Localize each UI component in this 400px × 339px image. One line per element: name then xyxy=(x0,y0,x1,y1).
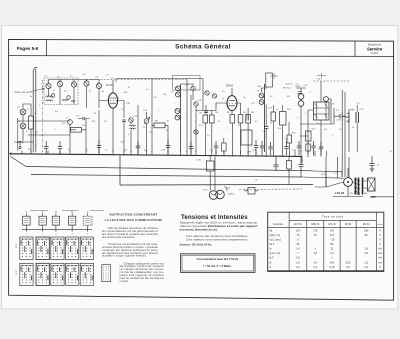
wafer contacts A3 xyxy=(51,237,64,260)
svg-text:1,2: 1,2 xyxy=(330,252,334,255)
svg-text:4: 4 xyxy=(72,234,73,236)
svg-text:Ia T: Ia T xyxy=(269,257,274,260)
svg-text:Vg2 (+ G): Vg2 (+ G) xyxy=(269,234,280,237)
wire: mixer links xyxy=(70,110,99,152)
cap C15 xyxy=(204,111,208,113)
trimmer C3 xyxy=(71,82,76,87)
svg-text:0,78: 0,78 xyxy=(330,266,335,269)
wafer contacts B1 xyxy=(20,263,33,285)
svg-text:EZ 80: EZ 80 xyxy=(345,224,352,226)
svg-text:5n: 5n xyxy=(352,127,354,129)
svg-text:1M: 1M xyxy=(104,121,107,123)
cap C51 xyxy=(268,142,273,155)
wire: V2 cathode drops xyxy=(232,108,248,154)
svg-text:0,3: 0,3 xyxy=(296,266,300,269)
svg-text:1n: 1n xyxy=(207,135,209,137)
switch wafer S2 xyxy=(39,216,46,225)
cap C28 xyxy=(214,141,219,155)
svg-text:ECH 81: ECH 81 xyxy=(294,224,303,226)
speaker SP xyxy=(368,178,376,191)
volume pot R12 xyxy=(271,112,276,121)
wafer contacts B5 xyxy=(80,263,93,285)
resistor R11 xyxy=(287,135,292,143)
svg-text:ECL 82: ECL 82 xyxy=(328,224,336,226)
resistor R5 xyxy=(210,115,215,123)
svg-text:0,3: 0,3 xyxy=(314,266,318,269)
coil box L1 (dashed) xyxy=(44,78,78,105)
wire: heater line xyxy=(31,175,302,178)
IF can T2 outline xyxy=(266,73,273,87)
cap C50 xyxy=(260,141,265,155)
switch wafer S3 xyxy=(52,216,59,225)
svg-text:Central: Central xyxy=(371,52,379,55)
svg-text:6,3V: 6,3V xyxy=(197,160,202,162)
coil L11 xyxy=(67,96,71,100)
svg-text:Ig 2 (+ G): Ig 2 (+ G) xyxy=(269,252,280,255)
cap C54 xyxy=(319,142,324,156)
resistor R8 xyxy=(246,115,251,124)
svg-text:S5: S5 xyxy=(86,211,88,213)
svg-text:1,6: 1,6 xyxy=(296,261,300,264)
svg-text:0,3: 0,3 xyxy=(364,266,368,269)
svg-text:Br: Br xyxy=(256,179,258,182)
wire: T1 links xyxy=(181,80,197,153)
svg-text:S4: S4 xyxy=(71,211,73,213)
grid resistor R13 xyxy=(348,113,350,124)
svg-text:C44 47 → 1,5: C44 47 → 1,5 xyxy=(285,84,299,86)
svg-text:Unités: Unités xyxy=(377,223,383,226)
mixer grid coil L4 xyxy=(68,120,73,125)
svg-text:0,9: 0,9 xyxy=(364,252,368,255)
svg-text:EM 84: EM 84 xyxy=(363,224,370,226)
svg-text:INSTRUCTION CONCERNANT: INSTRUCTION CONCERNANT xyxy=(109,213,157,217)
wire: left feed lines xyxy=(315,171,342,187)
trimmer C14 xyxy=(194,102,198,106)
node junctions on bus xyxy=(22,153,23,154)
cap C29 xyxy=(254,140,259,155)
svg-text:1,4: 1,4 xyxy=(296,248,300,251)
switch wafer S5 xyxy=(83,216,92,225)
svg-text:Tensions et Intensités: Tensions et Intensités xyxy=(181,214,248,221)
wafer contacts B4 xyxy=(66,263,79,285)
node: chassis arrow xyxy=(10,153,15,155)
svg-text:– 10: – 10 xyxy=(330,239,335,242)
svg-text:Appareil réglé sur 200 m. envi: Appareil réglé sur 200 m. environ, sans … xyxy=(180,221,258,225)
svg-text:LA LECTURE DES COMMUTATIONS: LA LECTURE DES COMMUTATIONS xyxy=(105,218,163,222)
wafer contacts A2 xyxy=(36,237,49,260)
wire: V2 leads xyxy=(216,88,241,114)
IF transformer T1 xyxy=(180,84,182,152)
svg-text:5k: 5k xyxy=(218,121,220,123)
cap C39 xyxy=(246,114,248,121)
tube V4 EL84 output xyxy=(344,178,353,187)
wire: B+ line xyxy=(120,184,313,187)
switch contact K1 xyxy=(17,142,23,146)
cap C24 xyxy=(97,140,102,154)
svg-text:la position « rouge » (gamme é: la position « rouge » (gamme étendue). xyxy=(102,254,147,258)
cap C30 xyxy=(297,141,302,155)
wire: gang dashed link xyxy=(42,80,44,152)
trimmer C10 xyxy=(129,118,134,123)
svg-text:1M: 1M xyxy=(285,139,288,141)
svg-text:mA: mA xyxy=(378,261,382,264)
wire: left edge drops xyxy=(14,104,33,152)
svg-text:P.O.: P.O. xyxy=(16,244,18,248)
svg-text:EB91: EB91 xyxy=(296,86,302,88)
trimmer C5 xyxy=(96,83,101,88)
svg-text:3: 3 xyxy=(55,234,56,236)
node AB terminal xyxy=(371,196,376,198)
wire: wafer bus xyxy=(22,229,92,231)
cap C48 below bus xyxy=(274,157,279,171)
wafer contacts B2 xyxy=(36,263,49,285)
instruction figure: wafer key xyxy=(102,265,111,282)
padder C8 xyxy=(20,123,26,129)
wire: dashed return xyxy=(239,188,302,191)
IF can T1 outline xyxy=(173,76,201,91)
wire: bus end drop xyxy=(301,156,303,163)
coil L10 xyxy=(51,94,55,98)
svg-text:Valeurs moyennes (hachurées et: Valeurs moyennes (hachurées et volts par… xyxy=(180,224,258,228)
wire: output stage feeds xyxy=(326,152,372,187)
svg-text:S2: S2 xyxy=(41,211,43,213)
wire: output links xyxy=(326,168,368,197)
cap C27 xyxy=(189,141,194,155)
svg-text:170: 170 xyxy=(330,234,335,237)
resistor R17 below bus xyxy=(207,161,215,171)
diode D2 xyxy=(298,101,304,107)
wire: AVC dashed left xyxy=(90,79,187,81)
label top marks xyxy=(270,73,278,79)
cap C11 xyxy=(122,120,126,122)
svg-text:L7A,L8: L7A,L8 xyxy=(335,191,344,195)
wire: dial lamp feed xyxy=(214,157,216,191)
label wafer top note xyxy=(30,210,104,212)
svg-text:0,6: 0,6 xyxy=(346,266,350,269)
svg-text:S3: S3 xyxy=(55,211,57,213)
consumption box xyxy=(181,254,256,273)
header title band xyxy=(9,55,394,58)
resistor R4 xyxy=(203,115,208,123)
cap C17 xyxy=(298,92,303,94)
svg-text:Va T: Va T xyxy=(269,243,275,246)
tube V1 ECH81 xyxy=(108,93,117,108)
resistor R18 below bus xyxy=(248,188,255,195)
svg-text:HF 10,2: HF 10,2 xyxy=(283,88,292,90)
cap C20 with ground xyxy=(370,159,375,173)
svg-text:4,2: 4,2 xyxy=(314,261,318,264)
svg-text:170: 170 xyxy=(330,229,335,232)
wire: AVC dashed right xyxy=(313,80,349,82)
trimmer C13 xyxy=(191,86,195,90)
wafer contacts A4 xyxy=(66,237,79,260)
wafer contacts A5 xyxy=(80,237,93,260)
padder C7 xyxy=(20,109,26,115)
svg-text:2k: 2k xyxy=(166,130,168,132)
detector transformer T3 xyxy=(314,102,330,120)
svg-text:2M: 2M xyxy=(238,125,241,127)
svg-text:des circuits qu'ils intéressen: des circuits qu'ils intéressent. xyxy=(102,235,135,239)
svg-text:40,2: 40,2 xyxy=(330,261,335,264)
wire: AVC bus xyxy=(26,167,313,171)
svg-text:Schéma Général: Schéma Général xyxy=(175,44,231,51)
resistor R1 xyxy=(29,116,34,129)
trimmer C1 xyxy=(46,83,51,88)
svg-text:k: k xyxy=(36,145,37,147)
resistor R10 xyxy=(280,112,287,126)
cap C49 below bus xyxy=(299,157,304,178)
trimmer C21b xyxy=(212,94,216,98)
cap C25 xyxy=(136,141,141,154)
svg-text:1: 1 xyxy=(26,234,27,236)
svg-text:C.A.V.: C.A.V. xyxy=(317,78,324,81)
svg-text:mA: mA xyxy=(378,248,382,251)
svg-text:G.O.: G.O. xyxy=(16,269,18,274)
tube V2 EBF80 xyxy=(227,96,237,111)
svg-text:10n: 10n xyxy=(339,129,342,131)
svg-text:5: 5 xyxy=(87,234,88,236)
cap C23 xyxy=(58,141,63,154)
diode D3 xyxy=(324,97,329,102)
resistor R3 xyxy=(154,123,165,128)
svg-text:47k: 47k xyxy=(324,129,327,131)
svg-text:S1: S1 xyxy=(25,211,27,213)
svg-text:Consommation avec 110 V 50 H: Consommation avec 110 V 50 Hz xyxy=(197,257,239,261)
svg-text:Service: Service xyxy=(367,46,383,51)
wire: osc section xyxy=(124,101,138,153)
antenna lead-in xyxy=(33,67,37,152)
wire: top links right xyxy=(300,124,334,136)
tube data table xyxy=(268,212,384,271)
dial lamp LP1 xyxy=(209,191,218,200)
wire: osc plate xyxy=(147,105,169,152)
svg-text:+250: +250 xyxy=(123,92,129,94)
coil L12 xyxy=(62,100,75,102)
svg-text:mA: mA xyxy=(378,252,382,255)
switch wafer S4 xyxy=(69,216,76,225)
trimmer C21 xyxy=(205,91,209,95)
svg-text:Type de tube: Type de tube xyxy=(322,215,344,219)
coupling cap C18 xyxy=(340,112,347,121)
wire: lines into output xyxy=(302,171,344,178)
tone cap C19 xyxy=(356,112,358,123)
coil L2 xyxy=(46,96,53,97)
output transformer T4 xyxy=(356,178,359,195)
svg-text:Pages 5-6: Pages 5-6 xyxy=(17,46,39,51)
trimmer C4 xyxy=(84,81,89,86)
decoupling box R9 xyxy=(241,130,252,145)
dial lamp LP2 xyxy=(216,190,225,199)
resistor R14 xyxy=(306,131,312,141)
svg-text:170: 170 xyxy=(296,229,301,232)
svg-text:à la masse), (mesurées au c/c): à la masse), (mesurées au c/c). xyxy=(180,228,218,232)
svg-text:50k: 50k xyxy=(278,128,281,130)
coil L5 xyxy=(130,125,136,126)
wire: band link rail xyxy=(18,118,70,151)
svg-text:g: g xyxy=(118,97,119,99)
resistor R16 xyxy=(306,144,311,151)
svg-text:2n: 2n xyxy=(26,131,28,133)
node grid junction xyxy=(196,110,216,112)
svg-text:Secteur: 110 Volts 50 Hz.: Secteur: 110 Volts 50 Hz. xyxy=(180,243,213,247)
svg-text:Ces valeurs sont mesurées sépa: Ces valeurs sont mesurées séparément. xyxy=(186,238,248,241)
svg-text:osc: osc xyxy=(146,89,149,91)
svg-text:1,8: 1,8 xyxy=(364,248,368,251)
svg-text:ci-jointe.: ci-jointe. xyxy=(120,279,130,283)
svg-text:Electrode: Electrode xyxy=(274,223,284,226)
svg-text:2: 2 xyxy=(42,234,43,236)
svg-text:1,5: 1,5 xyxy=(364,261,368,264)
svg-text:260: 260 xyxy=(364,229,369,232)
wire: top row link xyxy=(49,80,100,84)
wire: AF verticals xyxy=(334,90,345,152)
wafer contacts A1 xyxy=(20,237,33,260)
wire: lamp bracket xyxy=(225,187,228,192)
svg-text:0,3A: 0,3A xyxy=(363,192,368,195)
wire: V1 leads xyxy=(99,80,124,152)
diode D1 xyxy=(298,94,304,100)
wire: B+ top rail xyxy=(116,79,203,111)
svg-text:TRAFIC-BROADC.: TRAFIC-BROADC. xyxy=(14,91,33,94)
svg-text:3,8: 3,8 xyxy=(314,252,318,255)
svg-text:EBF80: EBF80 xyxy=(226,86,234,88)
cap C9 xyxy=(78,117,90,120)
resistor R2 xyxy=(71,128,82,133)
cap C16 xyxy=(264,127,269,129)
cap C52 xyxy=(284,141,289,155)
svg-text:Vg 1 (osc): Vg 1 (osc) xyxy=(269,239,281,242)
wire: riser to B+ xyxy=(119,156,121,185)
svg-text:0,2: 0,2 xyxy=(296,257,300,260)
resistor R7 xyxy=(238,115,243,124)
coil core L9 xyxy=(194,130,198,134)
svg-text:22,6: 22,6 xyxy=(346,261,351,264)
cap C26 xyxy=(166,140,171,154)
varcap C12 xyxy=(144,119,149,124)
cap C22 xyxy=(44,141,49,154)
trimmer C2 xyxy=(57,81,62,86)
wire: corner diagonal xyxy=(11,157,27,167)
svg-text:mA: mA xyxy=(378,257,382,260)
wire: osc coil drops xyxy=(49,86,100,108)
wire: detector links xyxy=(308,81,331,152)
svg-text:EM84: EM84 xyxy=(228,194,234,196)
wafer contacts B3 xyxy=(51,263,64,285)
cap C53 xyxy=(311,141,316,156)
svg-text:s: s xyxy=(174,103,175,105)
resistor R6 xyxy=(230,115,235,124)
svg-text:Bc: Bc xyxy=(30,96,32,98)
resistor R15 xyxy=(222,143,227,151)
schematic frame border xyxy=(9,39,394,300)
switch wafer S1 xyxy=(23,216,30,225)
svg-text:EBF 80: EBF 80 xyxy=(311,224,319,226)
svg-text:175: 175 xyxy=(313,229,318,232)
node bus taps xyxy=(22,151,327,157)
resistor R19 below bus xyxy=(287,161,292,170)
svg-text:I = 60 mA. P = 6 Watts.: I = 60 mA. P = 6 Watts. xyxy=(203,264,232,268)
wire: chassis bus xyxy=(11,154,303,157)
svg-text:6,3V: 6,3V xyxy=(203,190,208,192)
IF transformer T2 xyxy=(264,84,266,152)
